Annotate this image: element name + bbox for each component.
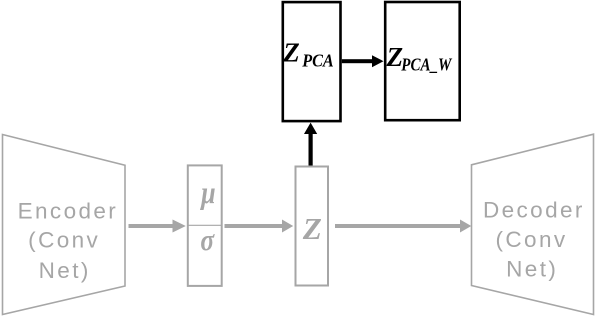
svg-text:(Conv: (Conv [28,228,100,253]
wire: gray arrow mu/sigma to Z box [225,220,294,233]
encoder trapezoid [3,135,126,315]
wire: black arrow Z_PCA to Z_PCA_W [342,55,384,67]
svg-text:σ: σ [200,224,215,258]
svg-text:Net): Net) [506,257,558,282]
svg-text:PCA: PCA [301,51,333,71]
Z_PCA_W box [385,2,460,120]
decoder trapezoid [472,134,594,314]
Z_PCA_W label [386,42,453,74]
Z_PCA label [282,38,333,71]
Z_PCA box [283,2,341,121]
wire: gray arrow encoder to mu/sigma box [129,220,186,233]
divider line between mu and sigma [188,224,222,226]
wire: black arrow Z up to Z_PCA box [304,123,317,166]
svg-text:PCA_W: PCA_W [400,54,452,74]
svg-text:(Conv: (Conv [495,227,567,252]
svg-text:Z: Z [282,38,300,68]
svg-text:μ: μ [199,176,215,211]
svg-text:Decoder: Decoder [483,198,585,223]
svg-text:Z: Z [302,211,322,246]
Z box (latent vector) [296,167,329,286]
encoder label "Encoder (Conv Net)" [18,198,119,283]
decoder label "Decoder (Conv Net)" [483,198,585,282]
svg-text:Encoder: Encoder [18,198,119,223]
mu/sigma box [188,165,222,286]
wire: gray arrow Z to decoder [335,220,471,233]
svg-text:Net): Net) [39,258,91,283]
